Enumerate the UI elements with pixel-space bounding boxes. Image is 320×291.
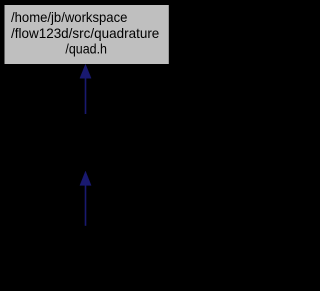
svg-text:/home/jb/workspace: /home/jb/workspace bbox=[11, 9, 128, 25]
arrow 1 head bbox=[80, 64, 91, 78]
arrow 1 shaft (edge from hidden middle node up to quad.h) bbox=[85, 78, 87, 115]
node quad.h (grey box, current file) bbox=[5, 5, 169, 64]
arrow 2 shaft (edge from hidden bottom node up to hidden middle node) bbox=[85, 185, 87, 226]
svg-text:/quad.h: /quad.h bbox=[65, 40, 107, 56]
svg-text:/flow123d/src/quadrature: /flow123d/src/quadrature bbox=[11, 25, 160, 41]
arrow 2 head bbox=[80, 171, 91, 185]
